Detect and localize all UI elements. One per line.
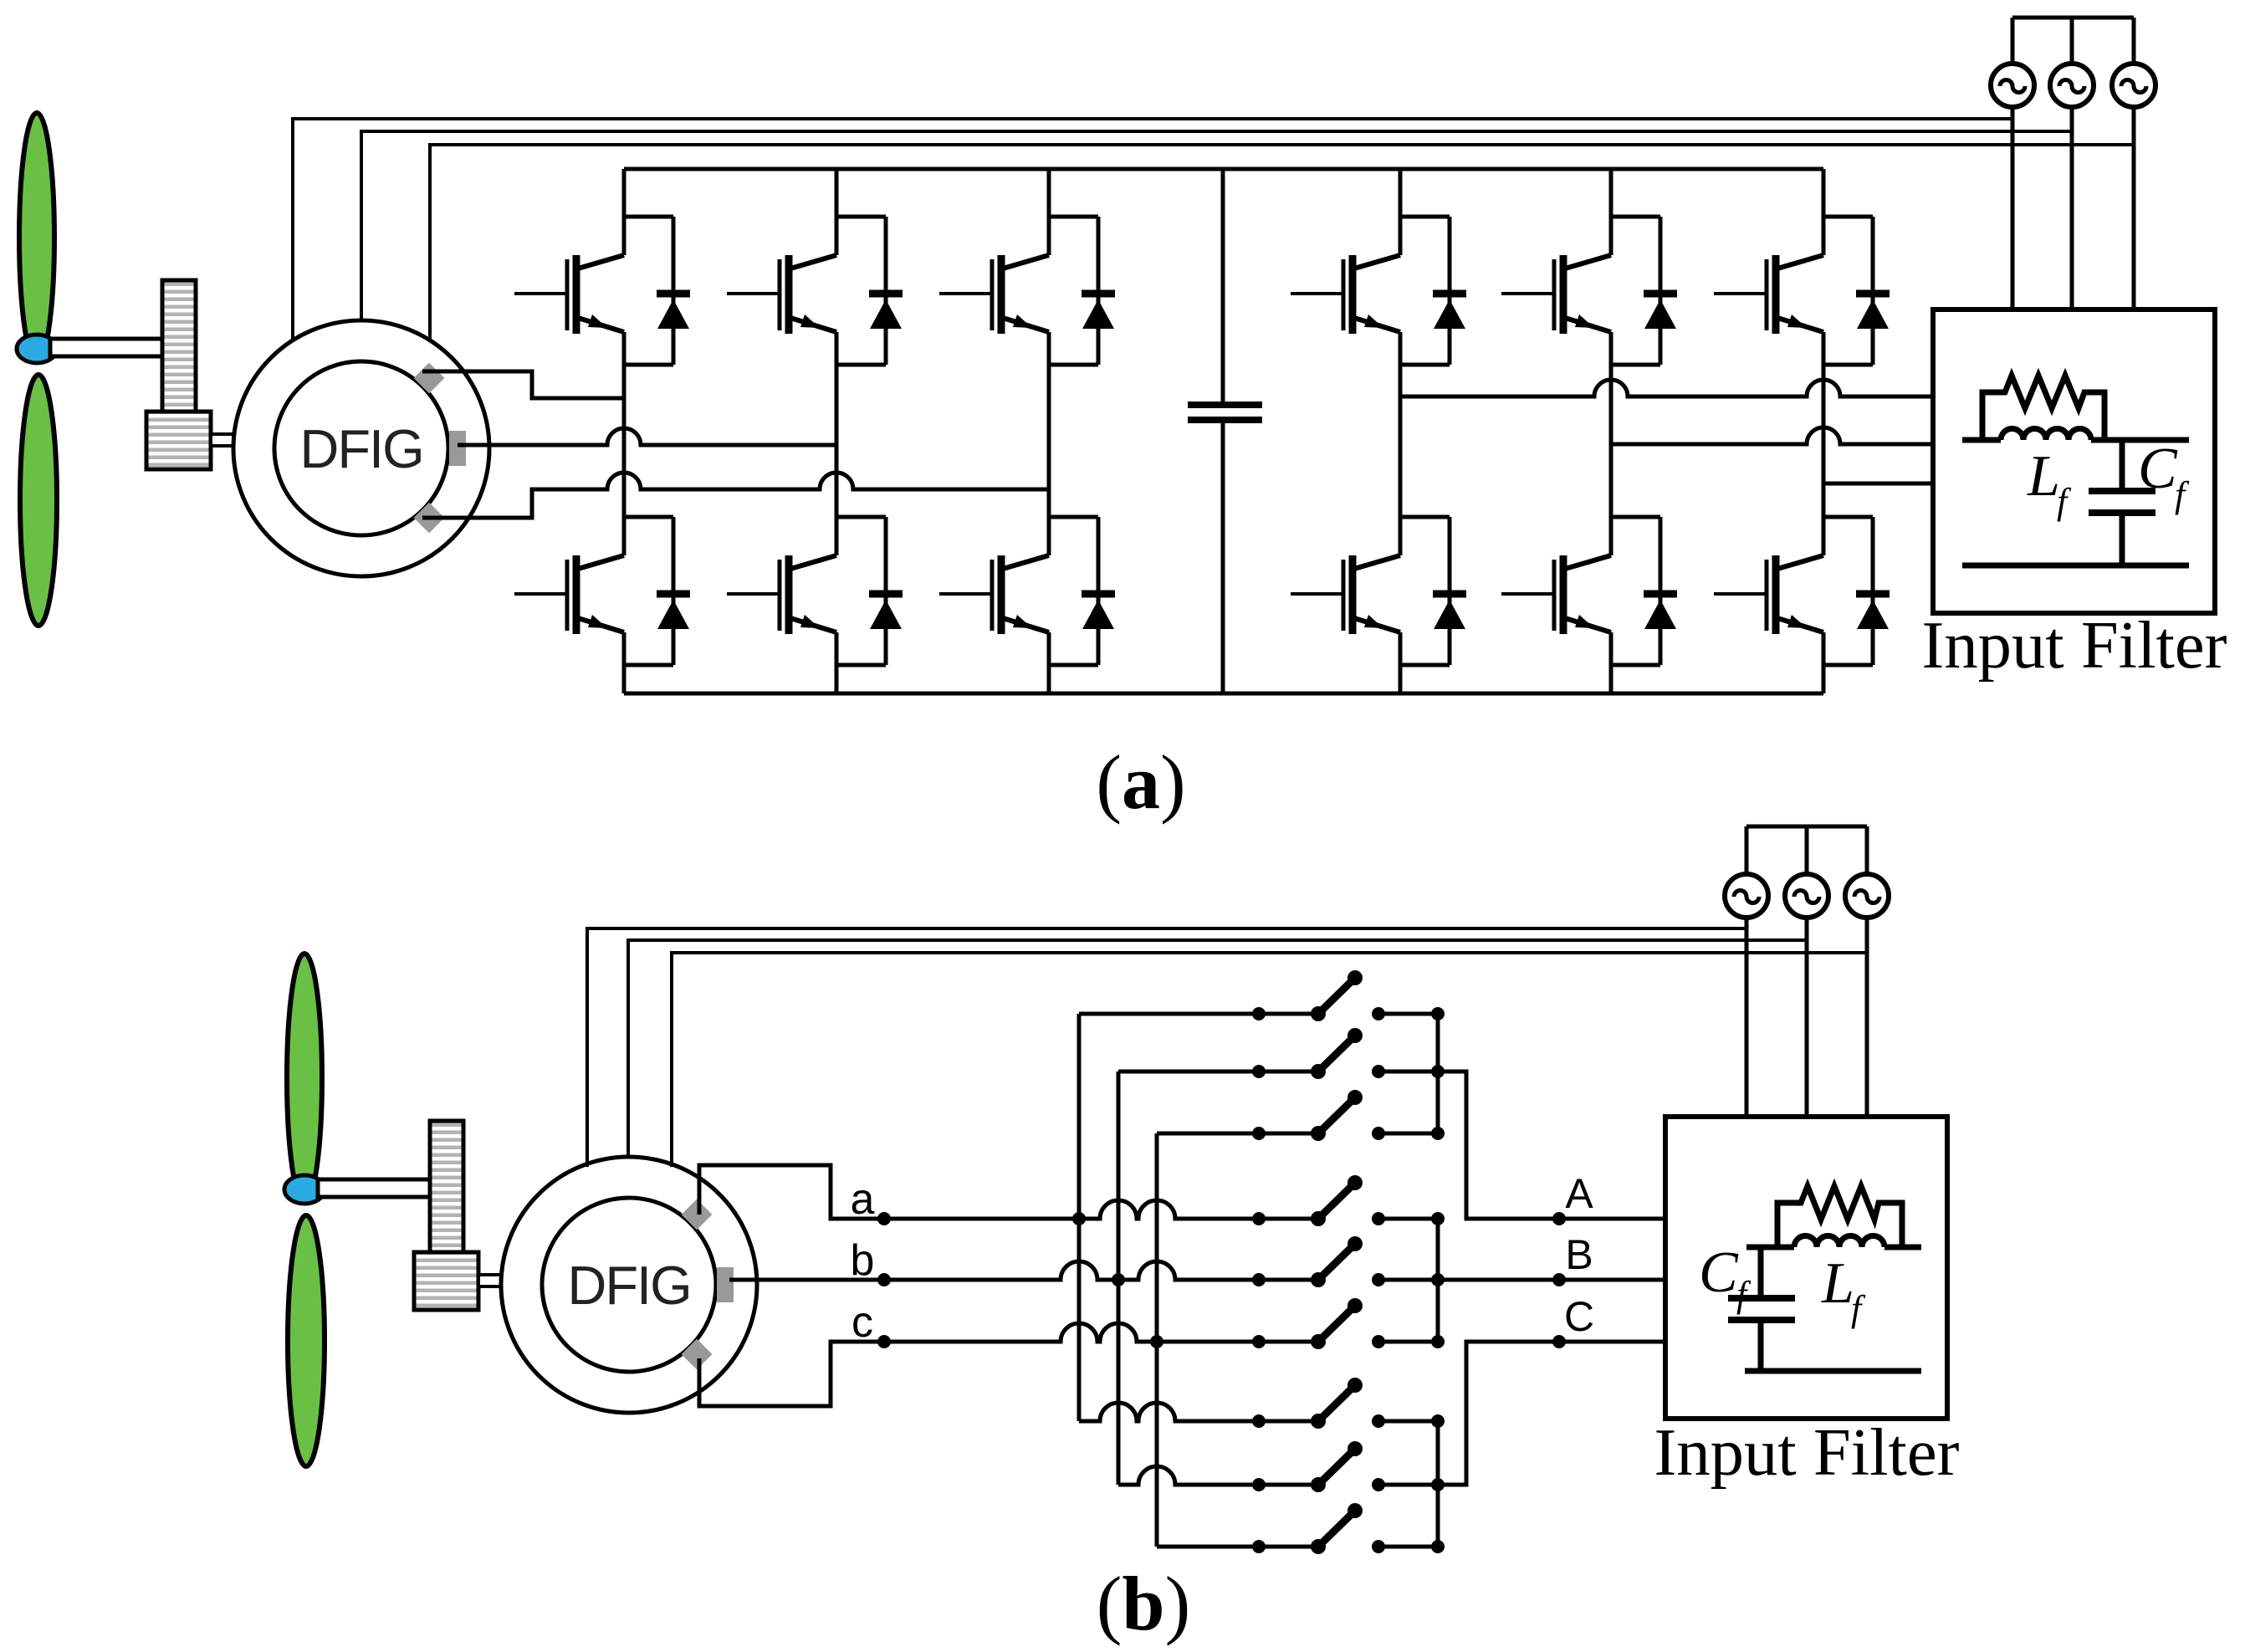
grid phase wire B (a) <box>1611 427 1933 444</box>
svg-text:L: L <box>2027 444 2060 509</box>
converter leg 2 vertical <box>835 169 839 693</box>
bidirectional switch SAc <box>1252 1090 1445 1141</box>
filter bottom line (a) <box>1962 563 2189 569</box>
AC source 2 (a) <box>2070 18 2074 64</box>
matrix input vertical 3 (c-phase) <box>1155 1133 1159 1547</box>
filter capacitor Cf (a) <box>2120 440 2125 565</box>
bidirectional switch SCb <box>1252 1441 1445 1492</box>
rotor wire c (b) <box>699 1323 1259 1406</box>
switch row 1 entry wire <box>1079 1012 1259 1016</box>
IGBT S2 bottom with diode <box>727 517 903 665</box>
wind turbine with gearbox (b) <box>284 954 504 1466</box>
svg-text:A: A <box>1565 1170 1593 1217</box>
filter bottom line (b) <box>1745 1368 1921 1374</box>
grid bus line 1 (b) <box>586 927 1746 930</box>
stator wire 3 (b) <box>670 953 673 1167</box>
grid bus line 1 (a) <box>291 117 2012 120</box>
junction a / vertical 1 <box>1072 1212 1086 1225</box>
IGBT S1 bottom with diode <box>514 517 690 665</box>
switch row 3 entry wire <box>1157 1132 1259 1136</box>
converter leg 5 vertical <box>1609 169 1613 693</box>
node b dot <box>877 1273 891 1286</box>
output wire B <box>1438 1278 1665 1282</box>
AC source bus bar (b) <box>1746 825 1867 829</box>
DC bottom rail <box>624 692 1823 696</box>
svg-text:L: L <box>1821 1251 1854 1316</box>
grid bus line 3 (a) <box>428 143 2134 146</box>
AC source 3 (b) <box>1865 826 1869 874</box>
stator wire 1 (b) <box>586 928 589 1167</box>
IGBT S5 bottom with diode <box>1501 517 1677 665</box>
input filter box (b) <box>1665 1117 1947 1419</box>
switch row 8 entry wire <box>1118 1466 1259 1485</box>
DC link capacitor <box>1221 169 1225 693</box>
svg-text:b: b <box>851 1236 875 1285</box>
filter inductor line (b) <box>1746 1245 1794 1251</box>
inductor Lf (a) <box>2001 429 2091 441</box>
bidirectional switch SBb <box>1252 1236 1445 1287</box>
AC source 3 (a) <box>2132 18 2136 64</box>
stator wire 2 (b) <box>626 940 630 1158</box>
IGBT S3 top with diode <box>939 217 1115 365</box>
svg-text:(b): (b) <box>1097 1561 1190 1646</box>
svg-text:Input Filter: Input Filter <box>1654 1416 1960 1490</box>
AC source 2 (b) <box>1805 826 1809 874</box>
inductor Lf (b) <box>1794 1236 1884 1248</box>
svg-text:Input Filter: Input Filter <box>1922 609 2227 683</box>
output rail A <box>1436 1014 1440 1133</box>
rotor wire b (b) <box>729 1261 1259 1280</box>
bidirectional switch SBa <box>1252 1175 1445 1226</box>
svg-text:c: c <box>851 1298 873 1347</box>
AC source 1 (a) <box>2011 18 2015 64</box>
AC source bus bar (a) <box>2012 16 2134 20</box>
bidirectional switch SCc <box>1252 1503 1445 1554</box>
damping resistor (b) <box>1777 1186 1902 1247</box>
output tap C <box>1438 1342 1665 1485</box>
stator wire 1 (a) <box>291 119 294 341</box>
bidirectional switch SAa <box>1252 970 1445 1021</box>
output rail B <box>1436 1219 1440 1342</box>
node a dot <box>877 1212 891 1225</box>
bidirectional switch SAb <box>1252 1028 1445 1079</box>
svg-text:C: C <box>2138 437 2178 501</box>
converter leg 6 vertical <box>1822 169 1826 693</box>
IGBT S5 top with diode <box>1501 217 1677 365</box>
AC source 1 (b) <box>1745 826 1749 874</box>
filter inductor Lf line (a) <box>1962 437 2001 443</box>
IGBT S4 bottom with diode <box>1291 517 1466 665</box>
node A dot <box>1552 1212 1566 1225</box>
junction b / vertical 2 <box>1112 1273 1125 1286</box>
output rail C <box>1436 1421 1440 1547</box>
DFIG generator (a) <box>233 320 489 576</box>
IGBT S2 top with diode <box>727 217 903 365</box>
svg-text:C: C <box>1699 1240 1739 1305</box>
matrix input vertical 1 (a-phase) <box>1077 1014 1082 1421</box>
grid bus line 3 (b) <box>670 951 1867 954</box>
grid phase wire C (a) <box>1823 482 1933 486</box>
stator wire 3 (a) <box>428 145 432 341</box>
svg-text:C: C <box>1564 1293 1594 1340</box>
matrix input vertical 2 (b-phase) <box>1117 1071 1121 1485</box>
node c dot <box>877 1335 891 1348</box>
converter leg 3 vertical <box>1047 169 1051 693</box>
svg-text:B: B <box>1565 1231 1593 1278</box>
rotor wire phase 2 (a) <box>458 428 836 445</box>
rotor wire phase 3 (a) <box>422 473 1049 518</box>
node B dot <box>1552 1273 1566 1286</box>
grid bus line 2 (b) <box>626 939 1807 942</box>
IGBT S6 top with diode <box>1714 217 1890 365</box>
switch row 9 entry wire <box>1157 1545 1259 1549</box>
rotor wire a (b) <box>699 1165 1259 1219</box>
input filter box (a) <box>1933 309 2215 613</box>
converter leg 1 vertical <box>622 169 626 693</box>
wind turbine with gearbox (a) <box>17 113 237 626</box>
grid bus line 2 (a) <box>360 130 2072 133</box>
rotor wire phase 1 (a) <box>422 371 624 398</box>
grid phase wire A (a) <box>1400 380 1933 396</box>
stator wire 2 (a) <box>360 131 363 322</box>
IGBT S6 bottom with diode <box>1714 517 1890 665</box>
svg-text:a: a <box>851 1175 875 1224</box>
switch row 2 entry wire <box>1118 1070 1259 1074</box>
svg-text:(a): (a) <box>1096 739 1185 825</box>
junction c / vertical 3 <box>1150 1335 1163 1348</box>
filter capacitor Cf (b) <box>1758 1247 1764 1371</box>
IGBT S1 top with diode <box>514 217 690 365</box>
IGBT S4 top with diode <box>1291 217 1466 365</box>
bidirectional switch SCa <box>1252 1378 1445 1429</box>
output tap A <box>1438 1071 1665 1219</box>
IGBT S3 bottom with diode <box>939 517 1115 665</box>
switch row 7 entry wire <box>1079 1403 1259 1421</box>
bidirectional switch SBc <box>1252 1298 1445 1349</box>
damping resistor (a) <box>1982 376 2104 440</box>
DC top rail <box>624 167 1823 171</box>
node C dot <box>1552 1335 1566 1348</box>
converter leg 4 vertical <box>1399 169 1403 693</box>
DFIG generator (b) <box>501 1157 757 1413</box>
